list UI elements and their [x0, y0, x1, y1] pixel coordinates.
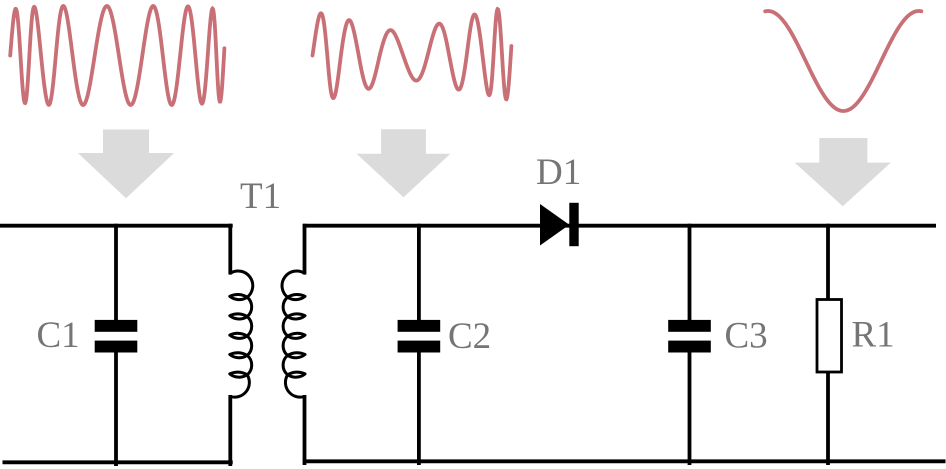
arrow: down arrow over C1: [78, 130, 174, 199]
wire: top left rail: [0, 224, 233, 228]
wire: bottom left rail: [3, 460, 233, 464]
wire: C1 branch: [114, 224, 118, 466]
inductor T1 secondary: [282, 224, 305, 465]
capacitor C3: [668, 320, 711, 353]
arrow: down arrow over R1: [795, 138, 891, 206]
svg-text:T1: T1: [240, 176, 281, 217]
resistor R1: [817, 300, 842, 373]
svg-text:C2: C2: [448, 316, 491, 357]
svg-text:C3: C3: [725, 316, 768, 357]
wire: top right rail: [303, 224, 936, 228]
inductor T1 primary: [230, 224, 253, 466]
waveform: demodulated audio signal: [765, 11, 921, 111]
wire: C3 branch: [688, 224, 692, 465]
waveform: tuned AM signal: [313, 9, 512, 99]
diode D1: [540, 203, 579, 246]
wire: bottom right rail: [303, 459, 946, 463]
svg-text:C1: C1: [37, 315, 80, 356]
wire: R1 branch: [826, 224, 830, 465]
capacitor C1: [95, 320, 138, 353]
svg-text:D1: D1: [536, 152, 581, 193]
svg-text:R1: R1: [852, 315, 895, 356]
arrow: down arrow over C2: [357, 129, 451, 197]
waveform: received AM signal: [10, 6, 224, 105]
capacitor C2: [398, 320, 441, 353]
wire: C2 branch: [417, 224, 421, 465]
